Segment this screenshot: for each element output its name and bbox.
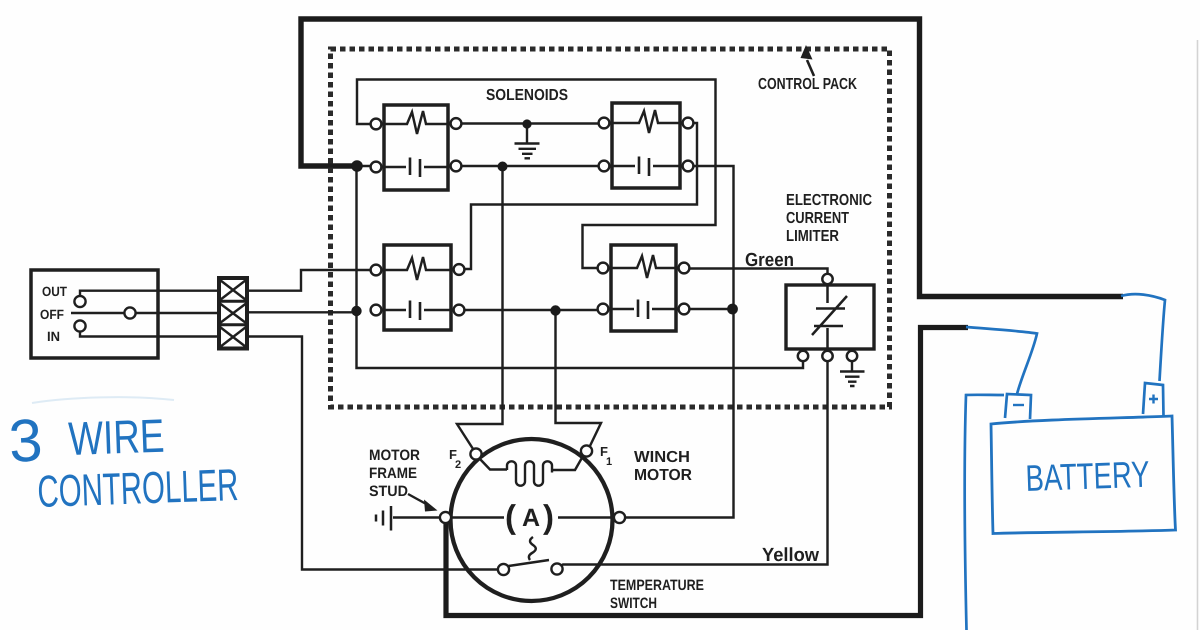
svg-text:WIRE: WIRE xyxy=(67,409,165,465)
svg-text:OFF: OFF xyxy=(40,307,64,322)
motor F2 terminal xyxy=(470,448,481,459)
scan page edge right xyxy=(1197,40,1199,630)
junction dot solenoid4 contact to motor xyxy=(727,304,738,315)
OFF pole terminal xyxy=(124,307,135,318)
svg-text:MOTOR: MOTOR xyxy=(369,447,420,464)
wire: yellow wire from current limiter down to temperature switch xyxy=(560,360,828,567)
svg-text:TEMPERATURE: TEMPERATURE xyxy=(610,577,704,594)
battery BT1 hand-drawn blue wires: positive lead xyxy=(1121,294,1165,381)
wire: IN contact down and right to connector xyxy=(80,332,218,337)
svg-text:2: 2 xyxy=(455,459,461,471)
battery negative post xyxy=(1005,394,1031,419)
wire: F2 field drop from solenoid1 contact junction xyxy=(457,167,503,452)
wire: contact bus solenoid3 to solenoid4 xyxy=(464,309,598,311)
arrow pointing to control pack border xyxy=(807,60,814,76)
svg-text:LIMITER: LIMITER xyxy=(786,228,839,245)
svg-text:FRAME: FRAME xyxy=(369,465,417,482)
arrow from STUD label to stud xyxy=(408,494,428,505)
solenoid K4 xyxy=(598,245,690,331)
OUT terminal xyxy=(74,296,85,307)
wire: coil bus solenoid1 to solenoid2 xyxy=(461,122,599,124)
battery negative lead xyxy=(966,327,1037,394)
solenoid K3 xyxy=(371,245,465,330)
junction dot controller feed at solenoid3 xyxy=(351,306,361,316)
svg-text:CURRENT: CURRENT xyxy=(786,210,849,227)
motor frame stud chassis symbol xyxy=(376,506,440,531)
solenoid K1 xyxy=(371,105,462,190)
wire: green wire solenoid4 coil to current limiter top xyxy=(689,269,828,274)
svg-text:Green: Green xyxy=(745,250,794,271)
svg-text:SOLENOIDS: SOLENOIDS xyxy=(486,87,568,104)
ground under solenoid coil bus xyxy=(515,126,540,158)
ground under current limiter xyxy=(840,361,865,386)
svg-text:OUT: OUT xyxy=(42,284,68,299)
wire: OFF from connector to solenoid3 contact xyxy=(247,311,352,313)
motor F1 terminal xyxy=(581,445,592,456)
wire: contact bus solenoid1 to solenoid2 xyxy=(352,165,599,167)
svg-text:A: A xyxy=(522,504,540,532)
svg-text:1: 1 xyxy=(606,456,612,468)
svg-text:STUD: STUD xyxy=(369,483,408,500)
control pack dashed enclosure xyxy=(331,49,890,407)
svg-text:Yellow: Yellow xyxy=(762,545,819,566)
battery main body xyxy=(991,416,1176,534)
wire: IN from connector down to temperature switch xyxy=(247,337,498,570)
junction dot on coil bus xyxy=(522,119,531,128)
wire: thick battery positive feed from top-left to battery + xyxy=(301,19,1123,297)
junction dot F2 tap xyxy=(498,162,508,172)
armature ammeter row xyxy=(451,516,614,518)
field coil winding xyxy=(479,456,583,470)
junction dot F1 tap xyxy=(550,305,560,315)
svg-text:CONTROLLER: CONTROLLER xyxy=(37,459,240,517)
temperature switch blade xyxy=(509,560,550,566)
svg-text:SWITCH: SWITCH xyxy=(610,595,657,612)
connector J1 (three hatched cells) xyxy=(219,278,247,349)
wire: OUT contact up and right to connector xyxy=(80,291,218,296)
svg-text:ELECTRONIC: ELECTRONIC xyxy=(786,192,872,209)
IN terminal xyxy=(74,320,85,331)
motor frame stud terminal xyxy=(440,512,451,523)
svg-text:WINCH: WINCH xyxy=(634,449,690,466)
temperature switch thermal squiggle xyxy=(529,537,536,560)
temperature switch right contact xyxy=(551,563,562,574)
solenoid K2 xyxy=(599,103,694,188)
svg-text:IN: IN xyxy=(47,329,60,344)
current limiter U1 xyxy=(786,274,874,361)
wire: OUT from connector up to solenoid3 coil xyxy=(247,270,371,291)
svg-text:(: ( xyxy=(505,498,516,535)
winch motor M1 body xyxy=(451,439,613,601)
controller box S1 xyxy=(31,270,158,358)
battery positive post xyxy=(1143,383,1164,416)
wire: F1 field drop from contact bus junction xyxy=(556,311,602,449)
faint ink bleed mark top-left of handwriting xyxy=(32,397,174,403)
wire: solenoid2 contact right down to motor armature right xyxy=(625,166,734,518)
junction dot solenoid1 contact feed xyxy=(351,160,363,172)
motor armature right terminal xyxy=(614,512,625,523)
svg-text:3: 3 xyxy=(7,406,44,475)
temperature switch left contact xyxy=(498,564,509,575)
svg-text:BATTERY: BATTERY xyxy=(1025,454,1150,499)
svg-text:MOTOR: MOTOR xyxy=(634,467,692,484)
svg-text:CONTROL PACK: CONTROL PACK xyxy=(758,76,857,93)
wire: solenoid2 coil right down and around to solenoid3 coil right xyxy=(464,123,697,269)
wire: solenoid4 contact right stub to junction xyxy=(689,308,731,310)
wire: OFF pole line to connector xyxy=(71,312,218,314)
wire: thick battery negative feed along bottom to motor stud xyxy=(446,328,968,616)
battery outer case going off page xyxy=(965,395,1004,630)
svg-text:): ) xyxy=(543,498,554,535)
wire: inner top bus from solenoid1 coil over to solenoid4 coil xyxy=(357,80,716,269)
wire: controller feed down to solenoid3 contact and current limiter xyxy=(357,164,804,368)
